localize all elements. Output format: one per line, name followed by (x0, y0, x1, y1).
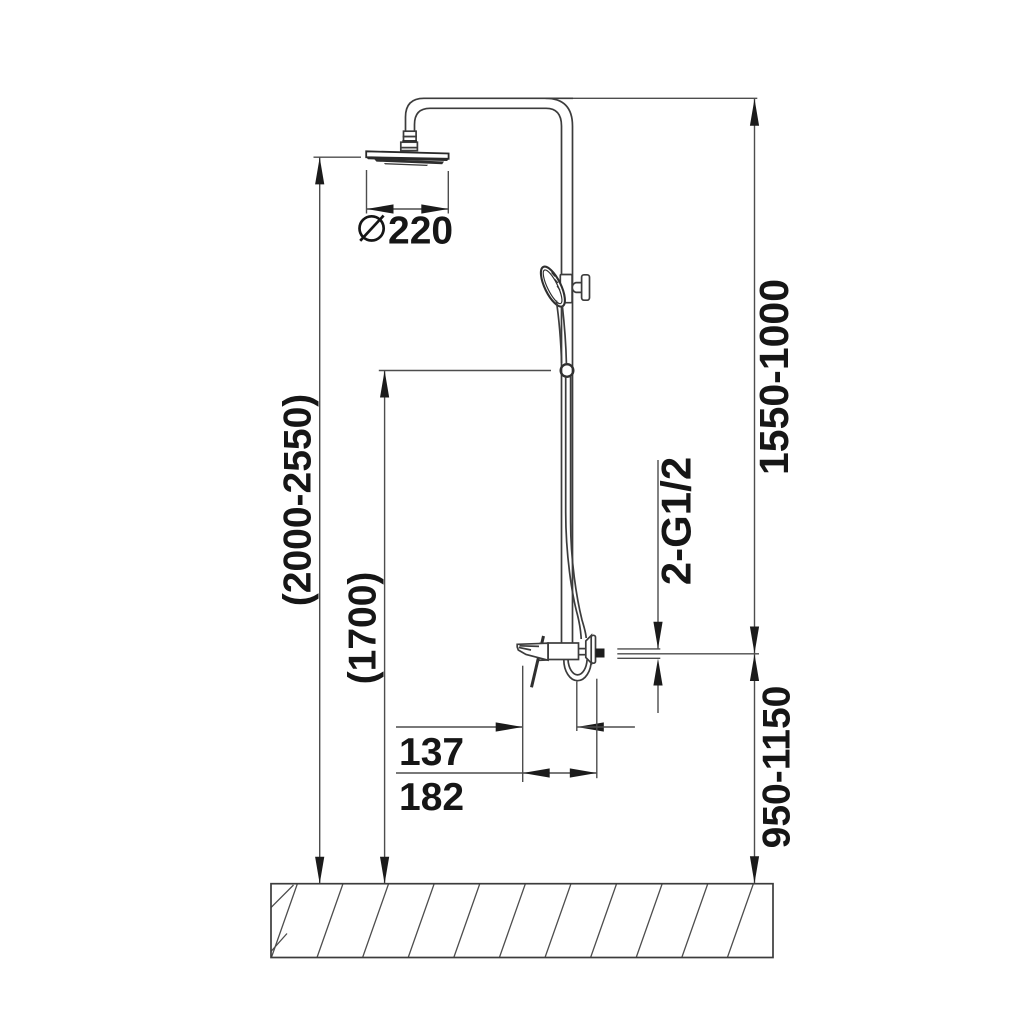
hand shower head (536, 263, 570, 309)
hand shower handle (556, 301, 566, 364)
mixer connector to flange (579, 649, 587, 655)
dia-220 extension line right (447, 171, 449, 214)
svg-text:2-G1/2: 2-G1/2 (653, 457, 700, 585)
mixer spout (517, 643, 548, 660)
1700 arrow down (380, 857, 389, 884)
right lower arrow down (750, 856, 759, 883)
svg-text:1550-1000: 1550-1000 (751, 279, 797, 475)
shower arm and riser pipe inner line (415, 108, 562, 643)
2-G1/2 dimension line upper (657, 460, 659, 649)
dia-220 extension line left (366, 170, 368, 214)
svg-text:220: 220 (388, 210, 453, 253)
wall flange (586, 635, 596, 663)
right dimension line 950-1150 (754, 654, 756, 884)
svg-text:137: 137 (399, 731, 464, 774)
mixer body (548, 643, 579, 660)
137 extension line right (576, 681, 578, 731)
182 dimension line (396, 772, 597, 774)
hose loop under mixer (564, 660, 592, 681)
mixer lever (532, 636, 544, 687)
137 dimension line left part (396, 726, 523, 728)
1700 dimension line (384, 371, 386, 884)
shower arm and riser pipe outer line (406, 98, 758, 643)
svg-text:950-1150: 950-1150 (756, 686, 799, 849)
182 arrow right-pointing (570, 768, 597, 777)
182 arrow left-pointing (523, 768, 550, 777)
182 extension line right (596, 679, 598, 779)
hand shower hose (566, 377, 587, 639)
floor slab with hatching (271, 884, 799, 958)
extension line from head to left dimension (314, 156, 362, 158)
svg-text:182: 182 (399, 776, 464, 819)
dia-220 arrow right (421, 204, 448, 213)
right upper arrow up (750, 99, 759, 126)
dia-220 arrow left (367, 204, 394, 213)
137 arrow left-pointing with tail (577, 722, 604, 731)
threaded nipple (596, 649, 605, 658)
slider ring (561, 364, 574, 377)
left dimension line 2000-2550 (319, 157, 321, 883)
dia-220 dimension line (367, 208, 449, 210)
2-G1/2 arrow up (653, 659, 662, 686)
1700 arrow up (380, 371, 389, 398)
svg-text:(2000-2550): (2000-2550) (277, 394, 320, 606)
137 arrow right-pointing (496, 722, 523, 731)
137 extension line left (522, 666, 524, 782)
left dimension arrow down (315, 857, 324, 884)
left dimension arrow up (315, 157, 324, 184)
1700 extension line (379, 370, 551, 372)
right upper arrow down (750, 627, 759, 654)
right lower arrow up (750, 654, 759, 681)
dia-220 label (360, 210, 454, 253)
mixer handle plate (538, 643, 548, 660)
right dimension line 1550-1000 (754, 99, 756, 654)
svg-text:(1700): (1700) (342, 572, 385, 685)
diverter knob stem (572, 283, 582, 293)
shower head connector collar (401, 131, 418, 150)
slide bracket on riser (560, 275, 572, 303)
wall connection pipe lines (617, 649, 759, 658)
shower head (366, 151, 448, 166)
diverter knob cap (582, 275, 590, 300)
2-G1/2 dimension line lower (657, 686, 659, 714)
2-G1/2 arrow down (653, 622, 662, 649)
